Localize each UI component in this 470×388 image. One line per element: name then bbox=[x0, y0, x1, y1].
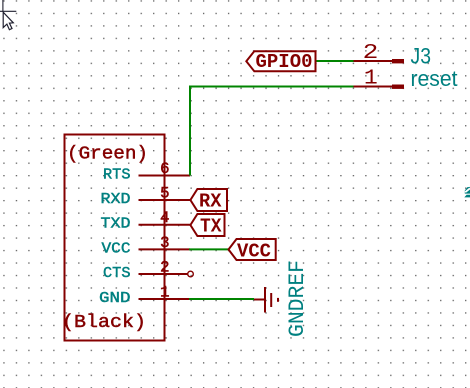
svg-text:(Black): (Black) bbox=[62, 313, 146, 333]
svg-text:J3: J3 bbox=[411, 44, 432, 69]
svg-text:6: 6 bbox=[160, 160, 170, 178]
pin 3 VCC bbox=[102, 234, 191, 258]
svg-text:1: 1 bbox=[160, 284, 170, 302]
svg-text:2: 2 bbox=[363, 41, 379, 65]
svg-text:RX: RX bbox=[199, 191, 222, 213]
svg-text:1: 1 bbox=[364, 66, 378, 90]
mouse pointer bbox=[3, 12, 13, 30]
svg-text:CTS: CTS bbox=[103, 265, 131, 282]
svg-text:VCC: VCC bbox=[102, 240, 131, 257]
svg-text:GNDREF: GNDREF bbox=[285, 260, 310, 337]
cursor crosshair bbox=[0, 0, 16, 12]
J3 pin 1 (reset) bbox=[354, 66, 405, 90]
wire RTS to J3 pin1 (vertical) bbox=[189, 87, 191, 176]
pin 5 RXD bbox=[101, 185, 191, 209]
svg-text:(Green): (Green) bbox=[67, 145, 148, 165]
wire horizontal to J3 pin1 bbox=[189, 86, 354, 88]
svg-text:reset: reset bbox=[411, 66, 458, 91]
pin 6 RTS bbox=[103, 160, 190, 184]
svg-text:RXD: RXD bbox=[101, 191, 131, 208]
svg-text:TX: TX bbox=[200, 216, 222, 238]
connector symbol body bbox=[65, 135, 165, 341]
global label GPIO0 bbox=[246, 51, 315, 73]
svg-text:TXD: TXD bbox=[101, 216, 131, 233]
svg-text:3: 3 bbox=[160, 234, 170, 252]
wire GND pin to ground bbox=[189, 298, 254, 300]
svg-text:RTS: RTS bbox=[103, 167, 131, 184]
pin 2 CTS bbox=[103, 259, 193, 283]
svg-text:VCC: VCC bbox=[237, 241, 271, 263]
ground symbol GNDREF bbox=[254, 287, 278, 313]
clipped teal glyph at right edge bbox=[464, 187, 470, 198]
global label TX bbox=[190, 214, 224, 238]
pin 1 GND bbox=[99, 284, 190, 308]
svg-text:4: 4 bbox=[160, 209, 170, 227]
svg-text:2: 2 bbox=[160, 259, 170, 277]
global label VCC bbox=[229, 239, 276, 263]
J3 pin 2 bbox=[354, 41, 405, 65]
svg-text:GPIO0: GPIO0 bbox=[256, 51, 313, 73]
wire VCC pin to VCC label bbox=[189, 248, 229, 250]
svg-text:GND: GND bbox=[99, 290, 131, 307]
global label RX bbox=[190, 189, 227, 213]
pin 4 TXD bbox=[101, 209, 191, 233]
wire GPIO0 to J3 pin2 bbox=[316, 60, 354, 62]
svg-text:5: 5 bbox=[160, 185, 170, 203]
